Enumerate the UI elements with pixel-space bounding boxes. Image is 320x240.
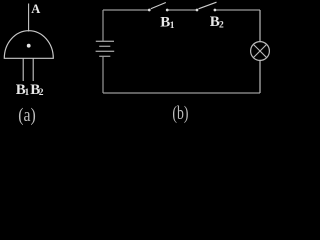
lamp L: bulb circle [251, 42, 270, 61]
contact dot inside dome [27, 44, 31, 48]
wire: top middle segment between switches [167, 9, 197, 11]
battery cell plate short [99, 45, 110, 47]
lamp L: cross diagonal 1 [253, 44, 266, 57]
switch B2: lever arm [199, 2, 217, 9]
wire: left vertical above battery [102, 10, 104, 41]
svg-text:(a): (a) [18, 106, 36, 126]
terminal leg B1 [22, 58, 24, 81]
terminal leg B2 [32, 58, 34, 81]
label B1 (switch) [160, 14, 175, 31]
svg-text:A: A [31, 2, 40, 16]
wire: top right segment [215, 9, 260, 11]
lamp L: cross diagonal 2 [253, 44, 266, 57]
switch B2: throw contact dot [214, 9, 217, 12]
svg-text:1: 1 [25, 88, 30, 98]
label B2 (figure a) [30, 82, 44, 98]
svg-text:(b): (b) [172, 104, 188, 124]
dome body outline [4, 31, 53, 59]
wire: left vertical below battery [102, 56, 104, 93]
svg-text:1: 1 [170, 21, 175, 31]
wire: top left segment [103, 9, 149, 11]
battery cell plate long (top) [96, 40, 114, 42]
label B1 (figure a) [16, 82, 30, 98]
wire: right vertical above lamp [259, 10, 261, 42]
switch B1: throw contact dot [166, 9, 169, 12]
pin A lead wire [28, 4, 30, 32]
svg-text:2: 2 [219, 21, 224, 31]
battery cell plate short (bottom) [99, 55, 110, 57]
wire: right vertical below lamp [259, 60, 261, 93]
switch B1: lever arm [151, 3, 166, 9]
svg-text:2: 2 [39, 88, 44, 98]
switch B1: pivot contact dot [148, 9, 151, 12]
label B2 (switch) [210, 14, 224, 31]
switch B2: pivot contact dot [196, 9, 199, 12]
wire: bottom wire [103, 92, 260, 94]
battery cell plate long [96, 50, 115, 52]
